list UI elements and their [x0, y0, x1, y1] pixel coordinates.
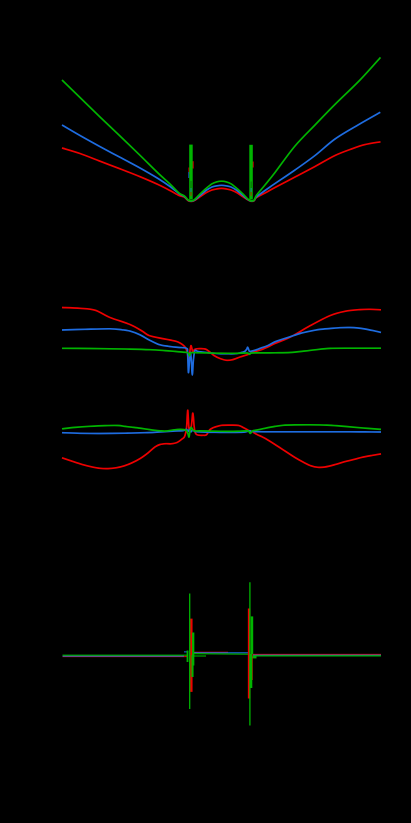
- red spike column cluster2: [248, 609, 251, 699]
- green spike B p1: [249, 145, 253, 200]
- green left blob cluster1: [187, 651, 189, 663]
- red spike column cluster1: [190, 619, 192, 692]
- green dash mid-left p4: [194, 655, 206, 657]
- green blob upper cluster2: [251, 616, 253, 654]
- blue spike A left smudge p1: [188, 172, 190, 178]
- red curve p1: [62, 142, 381, 202]
- red spike B peek p1: [252, 162, 254, 168]
- red spike A peek p1: [192, 161, 194, 168]
- spike A gap p1: [190, 181, 192, 195]
- spike B gap p1: [250, 182, 252, 195]
- green curve p2: [62, 348, 381, 356]
- red spike A left smudge p1: [188, 168, 190, 175]
- green thin spike cluster1: [189, 594, 191, 710]
- green curve p3: [62, 425, 381, 437]
- red right thin cluster2: [251, 630, 253, 680]
- blue baseline p4: [63, 652, 382, 656]
- green thin spike cluster2: [249, 582, 251, 725]
- green baseline p4: [63, 654, 382, 656]
- green curve p1: [62, 57, 381, 201]
- green blob upper cluster1: [192, 633, 194, 666]
- green step after cluster2 p4: [253, 656, 257, 658]
- blue curve p1: [62, 112, 380, 201]
- spike B gap blue p1: [250, 188, 252, 192]
- spike A gap blue p1: [190, 188, 192, 192]
- red baseline p4: [63, 652, 382, 656]
- red curve p2: [62, 308, 381, 362]
- green blob lower cluster1: [191, 655, 193, 677]
- spike A gap red p1: [190, 192, 192, 196]
- spike B gap red p1: [250, 192, 252, 196]
- red curve p3: [62, 410, 381, 468]
- blue curve p2: [62, 327, 381, 375]
- green blob lower cluster2: [250, 654, 252, 688]
- green spike A p1: [189, 145, 193, 200]
- blue curve p3: [62, 429, 381, 433]
